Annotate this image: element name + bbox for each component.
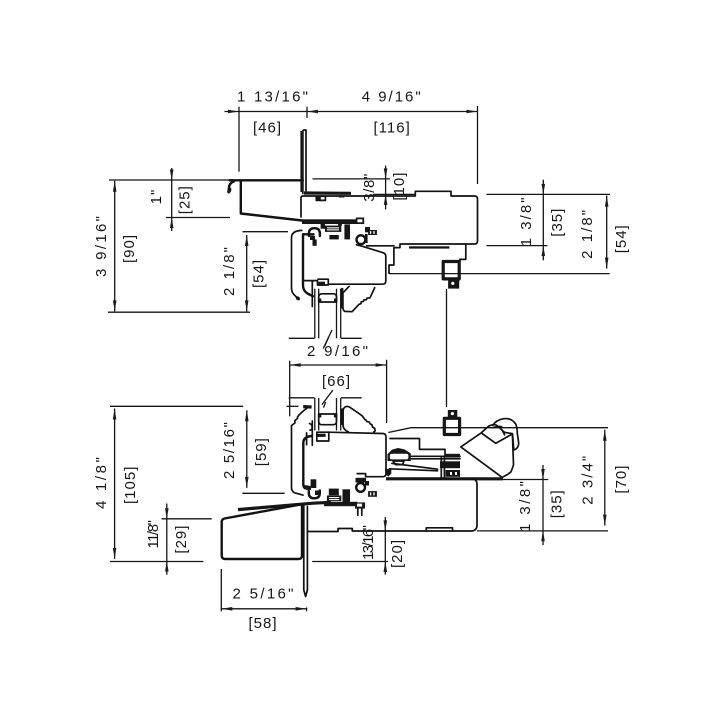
svg-text:[70]: [70] bbox=[613, 465, 630, 494]
svg-text:[59]: [59] bbox=[253, 437, 270, 466]
svg-text:13/16": 13/16" bbox=[360, 524, 377, 560]
svg-text:[66]: [66] bbox=[322, 373, 351, 390]
svg-text:[105]: [105] bbox=[122, 466, 139, 504]
svg-text:1: 1 bbox=[145, 539, 162, 548]
svg-text:1 3/8": 1 3/8" bbox=[518, 196, 535, 246]
svg-text:4 9/16": 4 9/16" bbox=[362, 89, 422, 106]
svg-text:1 3/8": 1 3/8" bbox=[517, 480, 534, 532]
svg-text:1 13/16": 1 13/16" bbox=[237, 89, 309, 106]
svg-text:[54]: [54] bbox=[251, 259, 268, 288]
svg-text:[90]: [90] bbox=[121, 234, 138, 263]
svg-text:2 3/4": 2 3/4" bbox=[580, 455, 597, 505]
svg-text:[58]: [58] bbox=[249, 615, 278, 632]
svg-text:2 9/16": 2 9/16" bbox=[307, 343, 369, 360]
svg-text:[20]: [20] bbox=[389, 539, 406, 568]
svg-text:2 1/8": 2 1/8" bbox=[221, 246, 238, 296]
svg-text:1": 1" bbox=[148, 189, 165, 205]
svg-text:[54]: [54] bbox=[613, 224, 630, 253]
svg-text:[29]: [29] bbox=[173, 525, 190, 554]
svg-text:[25]: [25] bbox=[177, 185, 194, 214]
svg-text:[46]: [46] bbox=[253, 120, 282, 137]
svg-text:[35]: [35] bbox=[549, 208, 566, 237]
svg-text:2 5/16": 2 5/16" bbox=[221, 421, 238, 479]
svg-text:3 9/16": 3 9/16" bbox=[93, 215, 110, 277]
svg-text:[35]: [35] bbox=[549, 489, 566, 518]
svg-text:[116]: [116] bbox=[374, 120, 411, 137]
svg-text:2 1/8": 2 1/8" bbox=[579, 209, 596, 259]
svg-text:1/8": 1/8" bbox=[145, 519, 162, 542]
svg-text:3/8": 3/8" bbox=[361, 173, 378, 202]
svg-text:2 5/16": 2 5/16" bbox=[233, 586, 295, 603]
